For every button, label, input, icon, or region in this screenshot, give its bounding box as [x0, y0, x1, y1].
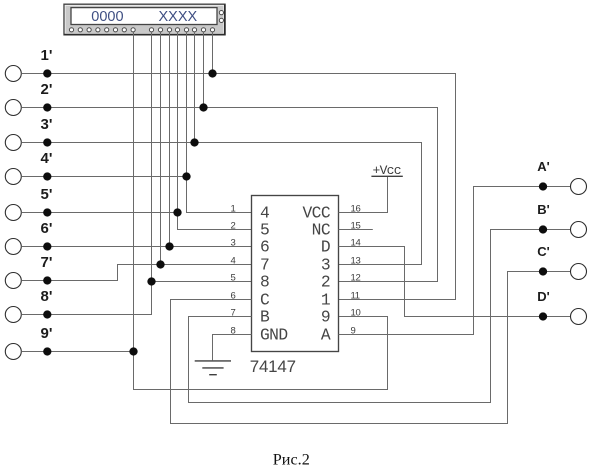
wire: IC pin 16 VCC up to +Vcc rail — [339, 177, 388, 213]
node row 1 display column dot — [208, 69, 216, 77]
node pin-5 row display column dot — [147, 277, 155, 285]
node input 4 junction dot — [43, 172, 51, 180]
svg-text:9: 9 — [321, 308, 330, 327]
display pin circles — [69, 11, 223, 32]
svg-text:8: 8 — [260, 273, 269, 292]
svg-text:74147: 74147 — [250, 357, 296, 376]
input terminal 1' — [5, 66, 21, 82]
svg-text:10: 10 — [351, 307, 361, 318]
wire: IC pin 15 NC stub — [339, 229, 373, 231]
svg-text:C': C' — [537, 244, 549, 259]
svg-text:7': 7' — [41, 254, 53, 271]
node input 6 junction dot — [43, 242, 51, 250]
svg-text:11: 11 — [351, 290, 360, 301]
svg-text:Рис.2: Рис.2 — [273, 450, 310, 468]
svg-text:2': 2' — [41, 81, 53, 98]
node input 9 junction dot — [43, 347, 51, 355]
wire: IC pin 7 B output around bottom to B terminal row — [189, 230, 571, 403]
svg-text:B': B' — [537, 202, 549, 217]
svg-text:4: 4 — [231, 255, 236, 266]
node input 3 junction dot — [43, 138, 51, 146]
node row 4 display column dot — [182, 172, 190, 180]
node input 7 junction dot — [43, 276, 51, 284]
svg-text:12: 12 — [351, 272, 361, 283]
wire row 9' : ends at display column junction — [21, 351, 133, 353]
IC U1 74147 body — [252, 196, 339, 352]
IC right inner pin names VCC NC D 3 2 1 9 A — [302, 204, 330, 345]
wire: display column through row 5 dot, elbow into IC pin 2 — [178, 32, 252, 230]
wire: display column ending on IC pin 4 row — [160, 32, 162, 265]
node row 3 display column dot — [190, 138, 198, 146]
wire: display column to row 3 — [194, 32, 196, 143]
svg-text:A: A — [321, 326, 331, 345]
wire: IC pin 5 row branch — [152, 281, 252, 283]
wire row 6' : straight into IC pin 3 — [21, 246, 251, 248]
svg-text:XXXX: XXXX — [159, 9, 198, 25]
svg-text:8': 8' — [41, 288, 53, 305]
node input 8 junction dot — [43, 310, 51, 318]
output terminal C' — [571, 264, 587, 280]
wire: IC pin 14 D output down to D terminal row — [339, 247, 571, 317]
wire row 3' : routes right, down into IC pin 13 — [21, 143, 421, 265]
node input 1 junction dot — [43, 69, 51, 77]
wire: display column through row 4 dot, elbow into IC pin 1 — [187, 32, 252, 213]
node row 6 display column dot — [165, 242, 173, 250]
wire: display column to row 1 — [212, 32, 214, 74]
wire: IC pin 8 GND to ground symbol — [213, 335, 252, 361]
svg-text:1: 1 — [231, 203, 236, 214]
output terminal B' — [571, 222, 587, 238]
svg-text:6: 6 — [260, 238, 269, 257]
svg-text:1': 1' — [41, 47, 53, 64]
svg-text:3: 3 — [231, 237, 236, 248]
svg-text:13: 13 — [351, 255, 361, 266]
svg-text:+Vcc: +Vcc — [373, 163, 402, 178]
node row 9 display column dot — [129, 347, 137, 355]
output terminal A' — [571, 179, 587, 195]
input terminal 9' — [5, 344, 21, 360]
input terminal 8' — [5, 307, 21, 323]
wire: IC pin 9 A output up to A terminal row — [339, 187, 571, 335]
svg-text:2: 2 — [321, 273, 330, 292]
wire: IC pin 6 C output around bottom to C terminal row — [171, 272, 571, 424]
wire row 8' : elbow up into display column — [21, 314, 151, 316]
wire row 1' : routes right, down into IC pin 11 — [21, 74, 455, 300]
IC left pin numbers 1-8 — [231, 203, 236, 336]
svg-text:6': 6' — [41, 220, 53, 237]
svg-text:2: 2 — [231, 220, 236, 231]
IC left inner pin names 4 5 6 7 8 C B GND — [260, 204, 288, 345]
svg-text:9': 9' — [41, 325, 53, 342]
node C junction dot — [539, 267, 547, 275]
wire: display column to row 2 — [203, 32, 205, 108]
input terminal 6' — [5, 239, 21, 255]
wire: display column ending on row 6 / IC pin 3 line — [169, 32, 171, 247]
svg-text:0000: 0000 — [91, 9, 123, 25]
wire row 2' : routes right, down into IC pin 12 — [21, 108, 437, 282]
ground symbol — [195, 361, 231, 375]
input terminal 7' — [5, 273, 21, 289]
node input 5 junction dot — [43, 208, 51, 216]
svg-text:3': 3' — [41, 116, 53, 133]
node input 2 junction dot — [43, 103, 51, 111]
wire row 5' : ends at display column junction — [21, 212, 177, 214]
input terminal 4' — [5, 169, 21, 185]
node A junction dot — [539, 182, 547, 190]
power symbol +Vcc bar — [371, 175, 402, 177]
display module U2 (indicator showing 0000 XXXX) — [64, 4, 225, 35]
svg-text:D': D' — [537, 289, 549, 304]
output terminal D' — [571, 309, 587, 325]
svg-text:A': A' — [537, 159, 549, 174]
wire: display pin-8 column down, bottom bus, up into IC pin 10 — [134, 32, 388, 390]
svg-text:B: B — [260, 308, 270, 327]
node row 2 display column dot — [199, 103, 207, 111]
svg-text:GND: GND — [260, 326, 288, 345]
svg-text:5: 5 — [231, 272, 236, 283]
svg-text:D: D — [321, 238, 330, 257]
IC right pin numbers 16-9 — [351, 203, 361, 336]
node row 5 display column dot — [173, 208, 181, 216]
wire row 7' : jogs up into IC pin 4 row — [21, 265, 251, 281]
input terminal 5' — [5, 205, 21, 221]
wire row 4' : ends at display column junction — [21, 176, 186, 178]
svg-text:4': 4' — [41, 150, 53, 167]
node B junction dot — [539, 225, 547, 233]
node D junction dot — [539, 312, 547, 320]
svg-text:5': 5' — [41, 186, 53, 203]
node pin-4 row display column dot — [156, 260, 164, 268]
input terminal 3' — [5, 135, 21, 151]
wire: display column down to row 8 elbow (through pin-5 T) — [21, 32, 151, 315]
input terminal 2' — [5, 100, 21, 116]
